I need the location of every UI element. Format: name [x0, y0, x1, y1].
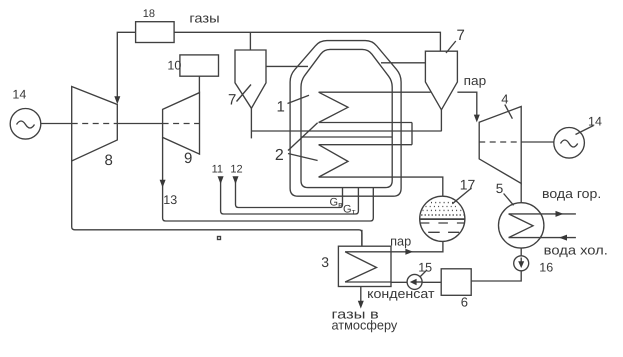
svg-text:14: 14	[12, 87, 26, 101]
svg-text:6: 6	[461, 295, 468, 310]
small square dot	[218, 237, 221, 240]
wire box18 to compressor 8	[117, 32, 135, 96]
wire box10 to turbine 9	[198, 76, 200, 92]
svg-text:15: 15	[418, 260, 432, 274]
drum 17 water dashes	[428, 231, 459, 233]
coil 2 top line	[319, 144, 412, 146]
pump 16 circle	[514, 256, 529, 271]
svg-text:4: 4	[501, 92, 508, 107]
heater 5 chevron	[509, 214, 533, 238]
pump 15 circle	[407, 274, 422, 289]
svg-text:16: 16	[539, 261, 553, 275]
wire air rail down into box 3	[361, 230, 363, 246]
drum 17 water level line	[420, 218, 465, 220]
box 3 chevron	[345, 252, 376, 282]
svg-text:13: 13	[163, 193, 177, 207]
cyclone 7 left	[235, 50, 266, 108]
label 1 tick	[288, 95, 310, 103]
drum 17 dashed water line	[420, 222, 465, 224]
shaft dashed inside compressor 8	[72, 123, 118, 125]
boiler inner wall	[301, 49, 392, 187]
drum 17 fine dotted line	[421, 214, 464, 216]
svg-text:17: 17	[460, 176, 476, 192]
superheater coil 1 bottom line	[319, 122, 412, 124]
svg-text:12: 12	[230, 164, 242, 176]
generator 14 left circle	[10, 109, 41, 140]
svg-text:вода гор.: вода гор.	[542, 186, 601, 201]
shaft dashed inside turbine 9	[163, 123, 200, 125]
arrowhead wire 13	[160, 180, 166, 188]
box 3 zigzag top / steam line to drum	[345, 242, 443, 252]
shaft wire turbine 4 to generator	[521, 141, 554, 143]
label 7 left tick	[237, 85, 252, 102]
wire right cyclone gas inlet from boiler	[381, 62, 425, 64]
svg-text:Gт: Gт	[343, 204, 356, 217]
boiler outer wall	[290, 41, 401, 197]
shaft dashed inside turbine 4	[479, 141, 521, 143]
svg-text:7: 7	[457, 27, 465, 44]
arrowhead gases to atmosphere	[358, 301, 364, 309]
label 2 ticks	[288, 123, 318, 151]
arrowhead steam into turbine 4	[474, 115, 480, 123]
gas rail wire	[174, 32, 440, 51]
svg-text:атмосферу: атмосферу	[332, 317, 398, 332]
arrowhead pump 16	[518, 261, 524, 268]
steam turbine 4	[479, 107, 521, 184]
svg-text:2: 2	[275, 147, 284, 164]
wire 11 air input	[221, 177, 359, 215]
pump 15 inner line	[417, 281, 423, 283]
svg-text:5: 5	[496, 181, 504, 196]
wire 12 fuel input	[236, 177, 343, 208]
drum 17 dotted steam area	[423, 203, 463, 211]
heater 5 cold water line	[509, 237, 576, 239]
arrowhead cold water in	[559, 235, 567, 241]
superheater coil 1 top line / steam main	[319, 91, 431, 93]
coil 2 bottom line to drum	[319, 177, 443, 196]
header box right edge	[411, 123, 413, 145]
arrowhead wire 12	[233, 176, 239, 184]
box 10	[180, 55, 219, 76]
arrowhead pump 15	[410, 279, 417, 286]
generator 14 right circle	[554, 128, 585, 159]
wire heater 5 to pump 16	[520, 248, 522, 256]
arrowhead hot water out	[556, 211, 564, 217]
svg-text:3: 3	[321, 254, 329, 270]
label 15 tick	[420, 270, 427, 277]
box 3 bottom zigzag line	[345, 281, 391, 283]
compressor 8	[72, 87, 118, 162]
steam wire cyclone to turbine 4	[457, 92, 476, 115]
cyclone 7 right tip wire	[440, 110, 442, 131]
pump 16 arrow stem	[520, 258, 522, 263]
drum 17 circle	[420, 196, 465, 241]
svg-text:9: 9	[184, 150, 192, 167]
arrowhead wire 11	[218, 176, 224, 184]
wire branch to left cyclone	[249, 32, 251, 50]
shaft wire generator to compressor 8	[41, 123, 72, 125]
svg-text:18: 18	[143, 8, 155, 20]
arrowhead steam to drum	[405, 249, 413, 255]
wire pump 16 to box 6	[471, 271, 521, 281]
svg-text:8: 8	[105, 152, 113, 169]
wire 13 turbine 9 to boiler	[163, 137, 374, 221]
generator 14 right sine symbol	[561, 140, 578, 147]
label 7 right tick	[446, 41, 456, 53]
cyclone 7 right	[425, 51, 457, 110]
svg-text:пар: пар	[464, 73, 487, 88]
wire turbine 4 exhaust to heater 5	[520, 183, 522, 202]
arrowhead into compressor 8	[114, 96, 120, 104]
svg-text:Gв: Gв	[330, 197, 344, 210]
wire left cyclone gas inlet from boiler	[266, 65, 308, 67]
box 6	[441, 269, 471, 296]
svg-text:7: 7	[228, 92, 236, 109]
box 18	[136, 22, 175, 43]
condensate wire box3 to box6	[391, 281, 441, 283]
heater 5 zigzag and hot water line	[509, 213, 576, 215]
svg-text:пар: пар	[390, 234, 411, 249]
box 3 air heater	[338, 246, 391, 286]
wire box 3 gases to atmosphere	[360, 287, 362, 302]
svg-text:газы: газы	[189, 11, 219, 26]
svg-text:вода хол.: вода хол.	[544, 242, 608, 257]
label 4 tick	[505, 105, 513, 119]
air rail wire from compressor 8 to box 3	[72, 161, 362, 246]
cyclone 7 left tip wire	[250, 108, 252, 138]
svg-text:11: 11	[212, 164, 223, 176]
svg-text:10: 10	[167, 59, 181, 73]
heater 5 circle	[499, 203, 544, 248]
svg-text:1: 1	[277, 98, 285, 115]
turbine 9	[163, 93, 200, 155]
grate line inside boiler	[301, 136, 392, 138]
label 14 right tick	[576, 126, 594, 135]
particle return line through boiler	[251, 130, 441, 132]
generator 14 left sine symbol	[17, 121, 35, 128]
label 5 tick	[504, 194, 514, 206]
svg-text:конденсат: конденсат	[367, 286, 434, 301]
superheater coil 1 chevron	[319, 92, 348, 122]
coil 2 chevron	[319, 145, 348, 177]
shaft wire between 8 and 9	[117, 123, 162, 125]
label 17 tick	[452, 188, 471, 204]
svg-text:14: 14	[588, 114, 602, 128]
